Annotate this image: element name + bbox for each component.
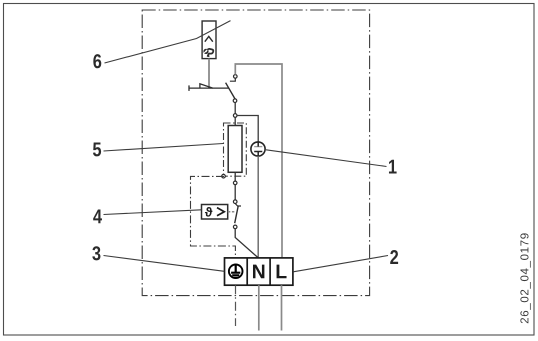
label 5 bbox=[93, 142, 101, 156]
wire L path: fixed contact up, across, down to L terminal bbox=[235, 64, 282, 258]
terminal block bbox=[225, 258, 293, 285]
heating element 5 bbox=[228, 126, 242, 173]
leader line 3 bbox=[104, 256, 225, 272]
node (connector) bbox=[233, 114, 237, 118]
signal lamp 1 bbox=[251, 142, 265, 156]
label 3 bbox=[92, 246, 100, 260]
PE terminal 3 (earth symbol) bbox=[229, 265, 243, 279]
thermostat 4 (box with theta >) bbox=[202, 205, 228, 220]
leader line 2 bbox=[293, 256, 388, 272]
leader line 4 bbox=[104, 210, 202, 215]
thermostat switch contact bbox=[233, 200, 241, 229]
wire thermostat switch to N terminal (with slant) bbox=[235, 229, 258, 258]
wire node to thermostat switch bbox=[234, 185, 236, 200]
L terminal label bbox=[277, 265, 287, 279]
wire lamp down to N terminal bbox=[257, 156, 259, 258]
enclosure boundary (dash-dot box) bbox=[142, 10, 369, 296]
wire from safety switch down to node bbox=[234, 103, 236, 114]
image code label 26_02_04_0179 bbox=[520, 233, 530, 323]
leader line 5 bbox=[104, 144, 224, 152]
thermostat boundary (dash-dot) bbox=[191, 176, 236, 258]
wire element bottom to node bbox=[234, 172, 236, 181]
N wire below block bbox=[258, 285, 260, 330]
wire branch to signal lamp bbox=[237, 116, 258, 142]
label 2 bbox=[390, 250, 398, 264]
label 1 bbox=[389, 160, 397, 174]
L wire below block bbox=[281, 285, 283, 330]
node (connector) below element bbox=[233, 181, 237, 185]
wire node to heating element bbox=[234, 117, 236, 125]
mechanical link (dashed) thermostat to contact bbox=[228, 211, 235, 213]
PE wire below block (dash-dot) bbox=[235, 285, 237, 326]
leader line 1 bbox=[266, 150, 387, 167]
label 4 bbox=[93, 209, 102, 223]
label 6 bbox=[93, 54, 101, 68]
wire from cutout 6 to actuator bbox=[208, 59, 210, 88]
safety cutout 6 (box with reset symbol) bbox=[202, 21, 216, 59]
safety switch contact (upper) bbox=[226, 75, 238, 103]
node at element boundary corner bbox=[222, 174, 226, 178]
leader line 6 bbox=[105, 21, 231, 63]
N terminal label bbox=[253, 265, 264, 279]
thermal actuator link (T-bar with flag) bbox=[189, 84, 229, 91]
heating element boundary (dash-dot) bbox=[224, 123, 247, 176]
